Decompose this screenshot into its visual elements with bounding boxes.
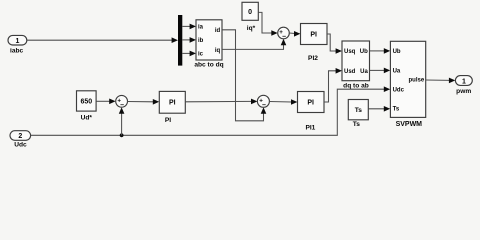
wire Ua — [370, 68, 391, 74]
svg-text:Ub: Ub — [393, 49, 401, 55]
svg-text:Udc: Udc — [393, 87, 405, 93]
wire ib — [182, 37, 196, 43]
svg-text:−: − — [282, 34, 286, 41]
sum S2 — [257, 95, 269, 109]
svg-text:1: 1 — [15, 38, 19, 45]
svg-text:Ua: Ua — [360, 69, 368, 75]
wire S1 to PI2 — [289, 31, 300, 37]
wire id feedback to sum S2 — [222, 30, 266, 121]
wire Ud* to sum S3 — [96, 99, 115, 105]
PI controller PI2 — [301, 24, 328, 63]
demux — [178, 15, 182, 66]
svg-text:Ts: Ts — [355, 107, 363, 114]
wire S3 to PI — [128, 99, 160, 105]
wire ia — [182, 24, 196, 30]
constant 0 iq* — [242, 2, 258, 32]
wire iabc to demux — [27, 37, 178, 43]
svg-text:650: 650 — [80, 99, 92, 106]
svg-text:1: 1 — [462, 78, 466, 85]
svg-text:Ud*: Ud* — [81, 114, 93, 121]
svg-text:Ua: Ua — [393, 68, 401, 74]
svg-text:Ub: Ub — [360, 49, 368, 55]
PI controller PI — [159, 91, 185, 123]
svg-text:abc to dq: abc to dq — [194, 62, 223, 69]
PI controller PI1 — [298, 92, 325, 132]
wire S2 to PI1 — [269, 99, 297, 105]
wire PI to sum S2 — [185, 99, 257, 105]
svg-text:Ts: Ts — [393, 107, 400, 113]
node Udc junction — [120, 133, 124, 137]
svg-text:iq: iq — [215, 48, 221, 54]
svg-text:SVPWM: SVPWM — [396, 121, 423, 128]
sum S3 — [116, 95, 128, 108]
sum S1 — [278, 27, 290, 40]
svg-text:PI1: PI1 — [305, 125, 315, 132]
svg-text:Ts: Ts — [353, 121, 361, 128]
wire Udc to SVPWM — [31, 86, 390, 135]
svg-text:iq*: iq* — [247, 25, 256, 32]
svg-text:ia: ia — [198, 25, 204, 31]
svg-text:2: 2 — [18, 133, 22, 140]
inport 1 iabc — [8, 35, 27, 54]
svg-text:Usq: Usq — [344, 49, 356, 55]
wire iq to sum S1 — [222, 39, 286, 50]
wire ic — [182, 51, 196, 57]
svg-text:PI: PI — [307, 99, 314, 106]
block dq to ab — [342, 41, 370, 90]
svg-text:Usd: Usd — [344, 69, 356, 75]
svg-text:−: − — [262, 102, 266, 109]
svg-text:pwm: pwm — [456, 88, 471, 95]
svg-text:id: id — [215, 28, 221, 34]
block abc to dq — [194, 20, 223, 69]
svg-text:pulse: pulse — [409, 78, 425, 84]
svg-text:0: 0 — [248, 9, 252, 16]
svg-text:iabc: iabc — [10, 47, 24, 54]
block SVPWM — [390, 41, 425, 128]
svg-text:PI: PI — [165, 117, 171, 124]
svg-text:−: − — [120, 102, 124, 109]
svg-text:PI: PI — [310, 31, 317, 38]
svg-text:PI: PI — [169, 100, 176, 107]
wire Ub — [370, 48, 391, 54]
constant Ts — [348, 100, 368, 129]
wire Udc branch to sum S3 — [119, 107, 125, 135]
wire Ts to SVPWM — [369, 106, 391, 112]
constant 650 Ud* — [77, 91, 97, 122]
svg-text:Udc: Udc — [14, 142, 27, 149]
wire PI2 to Usq — [327, 34, 342, 54]
outport 1 pwm — [455, 76, 472, 96]
inport 2 Udc — [10, 131, 31, 149]
wire PI1 to Usd — [324, 68, 342, 102]
svg-text:ib: ib — [198, 38, 204, 44]
svg-text:dq to ab: dq to ab — [343, 83, 369, 90]
svg-text:ic: ic — [198, 52, 204, 58]
wire pulse to outport — [426, 78, 456, 84]
wire iq* to sum S1 — [258, 12, 277, 35]
svg-text:PI2: PI2 — [308, 55, 318, 62]
